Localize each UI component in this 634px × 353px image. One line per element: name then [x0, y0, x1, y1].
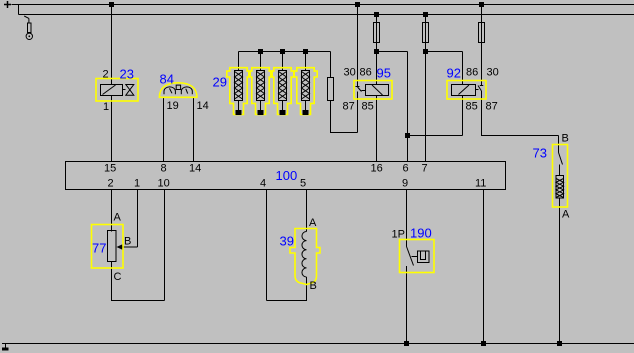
svg-text:B: B: [562, 133, 569, 145]
node injector bus 3: [280, 49, 285, 54]
label terminal 85 of relay 92: [466, 101, 478, 113]
svg-text:4: 4: [260, 178, 266, 190]
svg-text:C: C: [114, 271, 122, 283]
idle valve 39: [290, 229, 320, 285]
wire: injector supply bus: [239, 51, 331, 53]
node pin 6 wire at relay 92 coil return: [405, 133, 410, 138]
label ECU pin 6: [403, 163, 409, 175]
svg-text:7: 7: [422, 163, 428, 175]
svg-text:86: 86: [466, 67, 478, 79]
node ground bus at pin 9: [404, 341, 409, 346]
label terminal 86 of relay 92: [466, 67, 478, 79]
wire: bus 30 through fuse to relay 92 terminal 30: [481, 5, 483, 86]
node injector bus 2: [258, 49, 263, 54]
label ECU pin 16: [371, 163, 383, 175]
label ECU pin 5: [300, 178, 306, 190]
svg-text:A: A: [114, 212, 122, 224]
label pin 14 of sensor 84: [197, 100, 209, 112]
svg-text:23: 23: [120, 67, 134, 82]
svg-text:10: 10: [158, 178, 170, 190]
svg-text:85: 85: [466, 101, 478, 113]
label terminal 30 of relay 95: [344, 67, 356, 79]
fuse for relay 92 contact: [479, 23, 485, 43]
label terminal 87 of relay 92: [486, 101, 498, 113]
label terminal 85 of relay 95: [362, 101, 374, 113]
svg-text:1P: 1P: [392, 229, 405, 241]
label terminal A of 73: [562, 209, 570, 221]
designator 39: [280, 234, 294, 249]
svg-text:30: 30: [487, 67, 499, 79]
fuse for injectors: [328, 78, 334, 101]
node on line 30 at relay 92 fuse: [479, 2, 484, 7]
label ECU pin 8: [161, 163, 167, 175]
designator 73: [533, 146, 547, 161]
wire: injector 4 drop: [305, 52, 307, 71]
wire: potentiometer 77 C to ECU pin 10: [112, 190, 165, 301]
designator 100: [276, 168, 298, 183]
svg-text:73: 73: [533, 146, 547, 161]
ECU 100: [66, 162, 506, 190]
designator 77: [92, 241, 106, 256]
svg-text:19: 19: [167, 100, 179, 112]
wire: switch 190 to ground bus: [406, 266, 408, 344]
wire: injector 3 drop: [282, 52, 284, 71]
wire: ECU pin 1 to potentiometer 77 wiper B: [122, 190, 138, 248]
label terminal B of 39: [310, 280, 317, 292]
wire: ECU pin 11 to ground bus: [483, 190, 485, 344]
node ground bus at pin 11: [481, 341, 486, 346]
wire: battery positive bus line 30: [12, 4, 634, 6]
relay 95: [354, 81, 392, 100]
label ECU pin 1: [134, 178, 140, 190]
svg-text:2: 2: [103, 69, 109, 81]
switch 73: [553, 145, 568, 208]
designator 84: [160, 72, 174, 87]
label terminal B of 73: [562, 133, 569, 145]
designator 92: [447, 66, 461, 81]
svg-text:85: 85: [362, 101, 374, 113]
label ECU pin 2: [108, 178, 114, 190]
injector 1: [227, 68, 250, 115]
node on line 30 at valve 23 feed: [109, 2, 114, 7]
svg-text:14: 14: [197, 100, 209, 112]
svg-text:16: 16: [371, 163, 383, 175]
injector 2: [249, 68, 272, 115]
svg-text:95: 95: [377, 66, 391, 81]
svg-text:9: 9: [402, 178, 408, 190]
label pin 19 of sensor 84: [167, 100, 179, 112]
wire: ECU pin 5 to valve 39 A: [306, 190, 308, 232]
injector 3: [271, 68, 294, 115]
wire: bus 15 through fuse to ECU pin 7: [425, 15, 427, 162]
wire: sensor 84 pin 14 to ECU pin 14: [193, 97, 195, 162]
designator 95: [377, 66, 391, 81]
svg-text:1: 1: [134, 178, 140, 190]
svg-text:11: 11: [475, 178, 486, 190]
wire: second supply bus line 15: [19, 5, 634, 15]
label terminal C of 77: [114, 271, 122, 283]
svg-text:15: 15: [104, 163, 116, 175]
solenoid valve 23: [96, 79, 138, 102]
wire: ground bus: [2, 343, 634, 345]
wire: fused branch to ECU pin 6: [377, 52, 408, 162]
node fused branch at pin 7 wire: [423, 49, 428, 54]
svg-text:29: 29: [213, 75, 227, 90]
designator 190: [410, 226, 432, 241]
label 1P of switch 190: [392, 229, 405, 241]
wire: valve 39 B to ECU pin 4: [267, 190, 307, 301]
label terminal 87 of relay 95: [343, 101, 355, 113]
designator 29: [213, 75, 227, 90]
wire: bus to relay 95 terminal 30: [357, 5, 359, 87]
node on line 30 at relay 95 terminal 30: [355, 2, 360, 7]
injector 4: [294, 68, 317, 115]
label ECU pin 14: [189, 163, 201, 175]
svg-text:100: 100: [276, 168, 298, 183]
wire: injector 2 drop: [260, 52, 262, 71]
svg-text:2: 2: [108, 178, 114, 190]
wire: relay 95 terminal 85 to ECU pin 16: [376, 96, 378, 162]
svg-text:5: 5: [300, 178, 306, 190]
label ECU pin 10: [158, 178, 170, 190]
thermal switch 190: [400, 240, 435, 273]
relay 92: [447, 81, 486, 100]
label ECU pin 15: [104, 163, 116, 175]
wire: injector 1 drop: [238, 52, 240, 71]
svg-text:A: A: [309, 217, 317, 229]
wire: valve 23 to ECU pin 15: [111, 96, 113, 162]
potentiometer 77: [92, 225, 124, 269]
svg-text:6: 6: [403, 163, 409, 175]
svg-text:1: 1: [103, 101, 109, 113]
label terminal A of 77: [114, 212, 122, 224]
wire: sensor 84 pin 19 to ECU pin 8: [163, 97, 165, 162]
label terminal A of 39: [309, 217, 317, 229]
svg-text:8: 8: [161, 163, 167, 175]
wire: fused branch to relay 92 terminal 86: [426, 52, 463, 85]
wire: injector fuse to relay 95 terminal 87: [331, 52, 358, 133]
svg-text:87: 87: [343, 101, 355, 113]
label ECU pin 7: [422, 163, 428, 175]
wire: ECU pin 9 to switch 190: [406, 190, 408, 247]
svg-text:92: 92: [447, 66, 461, 81]
node fused branch at relay 95 coil: [374, 49, 379, 54]
svg-text:B: B: [124, 236, 131, 248]
svg-text:B: B: [310, 280, 317, 292]
ground terminal: [2, 344, 9, 351]
label ECU pin 11: [475, 178, 486, 190]
svg-text:A: A: [562, 209, 570, 221]
label ECU pin 4: [260, 178, 266, 190]
label pin 1 of valve 23: [103, 101, 109, 113]
label terminal B of 77: [124, 236, 131, 248]
label ECU pin 9: [402, 178, 408, 190]
label terminal 86 of relay 95: [360, 67, 372, 79]
wire: bus 15 through fuse to relay 95 terminal 86: [376, 15, 378, 85]
node ground bus at switch 73: [557, 341, 562, 346]
wire: relay 92 terminal 87 to switch 73 terminal B: [482, 91, 559, 153]
svg-text:87: 87: [486, 101, 498, 113]
wire: switch 73 terminal A to ground bus: [559, 198, 561, 344]
svg-text:14: 14: [189, 163, 201, 175]
wire: ECU pin 2 to potentiometer 77 A: [111, 190, 113, 232]
fuse for relay 95 coil: [374, 23, 380, 43]
label pin 2 of valve 23: [103, 69, 109, 81]
sensor 84: [159, 83, 197, 98]
svg-text:190: 190: [410, 226, 432, 241]
battery positive terminal: [4, 1, 33, 40]
svg-text:84: 84: [160, 72, 174, 87]
node injector bus 4: [303, 49, 308, 54]
fuse for relay 92 coil: [423, 23, 429, 43]
wire: relay 92 terminal 85 to node at pin 6: [408, 96, 463, 136]
wire: feed to valve 23: [111, 5, 113, 85]
designator 23: [120, 67, 134, 82]
svg-text:77: 77: [92, 241, 106, 256]
node on line 15 at fuse to relay 95: [374, 12, 379, 17]
injector group 29: [227, 68, 317, 115]
svg-text:39: 39: [280, 234, 294, 249]
node on line 15 at fuse to ECU pin 7: [423, 12, 428, 17]
svg-text:86: 86: [360, 67, 372, 79]
label terminal 30 of relay 92: [487, 67, 499, 79]
svg-text:30: 30: [344, 67, 356, 79]
